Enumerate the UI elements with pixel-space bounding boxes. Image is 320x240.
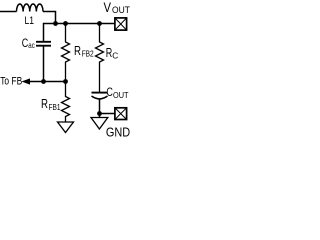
svg-text:To FB: To FB (0, 76, 22, 88)
svg-text:OUT: OUT (112, 5, 130, 15)
svg-text:ac: ac (28, 40, 35, 50)
svg-text:R: R (74, 44, 81, 58)
svg-text:FB2: FB2 (82, 49, 94, 59)
svg-text:L1: L1 (25, 15, 35, 27)
svg-text:R: R (41, 97, 48, 111)
svg-text:OUT: OUT (113, 90, 129, 100)
svg-text:C: C (112, 51, 118, 61)
svg-text:GND: GND (106, 125, 130, 140)
svg-text:FB1: FB1 (49, 102, 61, 112)
svg-text:V: V (104, 0, 112, 15)
